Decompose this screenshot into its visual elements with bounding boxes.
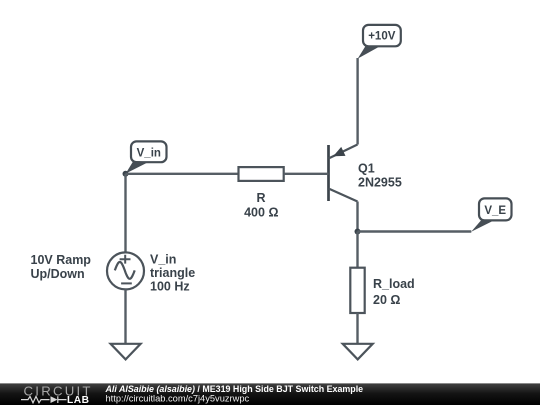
svg-text:R: R — [256, 191, 265, 205]
node junction at V_in — [123, 171, 129, 177]
voltage source V1 (V_in) — [107, 252, 144, 289]
svg-text:Up/Down: Up/Down — [31, 267, 85, 281]
ground (left) — [111, 344, 141, 360]
svg-text:2N2955: 2N2955 — [358, 175, 402, 189]
resistor R — [239, 167, 284, 181]
transistor Q1 — [329, 145, 358, 202]
node junction at emitter output — [355, 229, 361, 235]
svg-text:V_E: V_E — [484, 205, 506, 217]
svg-text:100 Hz: 100 Hz — [150, 279, 190, 293]
svg-text:R_load: R_load — [373, 277, 415, 291]
svg-text:+10V: +10V — [368, 31, 396, 43]
wire R_load to ground — [356, 313, 358, 344]
net label +10V — [358, 25, 401, 59]
svg-text:20 Ω: 20 Ω — [373, 293, 400, 307]
wire Q1 collector to node — [356, 202, 358, 232]
net label V_in — [126, 141, 167, 173]
svg-text:Q1: Q1 — [358, 161, 375, 175]
svg-text:LAB: LAB — [67, 395, 89, 405]
CircuitLab logo — [21, 383, 93, 405]
wire node to R_load — [356, 232, 358, 268]
net label V_E — [471, 198, 511, 231]
resistor R_load — [350, 268, 364, 313]
footer bar — [0, 383, 540, 384]
svg-text:V_in: V_in — [150, 252, 176, 266]
wire node to resistor R — [126, 173, 239, 175]
wire V_in node to source — [124, 174, 126, 253]
wire resistor R to Q1 base — [284, 173, 329, 175]
wire +10V to Q1 emitter — [356, 58, 358, 145]
svg-text:V_in: V_in — [137, 148, 161, 160]
ground (right) — [343, 344, 373, 360]
wire source to ground — [124, 289, 126, 343]
svg-text:400 Ω: 400 Ω — [244, 205, 278, 219]
svg-text:10V Ramp: 10V Ramp — [31, 253, 92, 267]
svg-text:http://circuitlab.com/c7j4y5vu: http://circuitlab.com/c7j4y5vuzrwpc — [106, 393, 250, 403]
svg-text:Ali AlSaibie (alsaibie) / ME31: Ali AlSaibie (alsaibie) / ME319 High Sid… — [105, 384, 364, 394]
svg-text:triangle: triangle — [150, 266, 195, 280]
wire node to V_E label — [358, 230, 472, 232]
